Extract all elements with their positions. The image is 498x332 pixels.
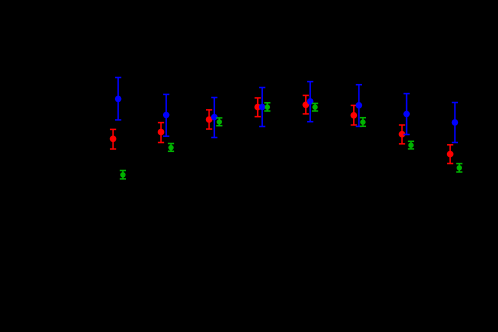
blue series point 7 error bar — [403, 94, 410, 135]
green series point 8 error bar — [456, 164, 462, 172]
red series point 8 error bar — [447, 145, 454, 164]
red series point 7 error bar — [399, 125, 406, 144]
green series point 4 error bar — [264, 103, 270, 111]
blue series point 3 error bar — [211, 98, 218, 138]
blue series point 8 error bar — [452, 103, 459, 143]
blue series point 5 error bar — [307, 82, 314, 122]
blue series point 1 error bar — [115, 78, 122, 120]
blue series point 4 error bar — [259, 88, 266, 127]
red series point 4 error bar — [254, 98, 261, 117]
green series point 7 error bar — [408, 141, 414, 149]
red series point 3 error bar — [206, 110, 213, 129]
red series point 5 error bar — [303, 95, 310, 114]
blue series point 2 error bar — [163, 94, 170, 136]
green series point 3 error bar — [216, 118, 222, 126]
green series point 2 error bar — [168, 144, 174, 152]
green series point 5 error bar — [312, 103, 318, 111]
blue series point 6 error bar — [356, 85, 363, 127]
red series point 2 error bar — [158, 123, 165, 143]
red series point 6 error bar — [351, 105, 358, 125]
green series point 1 error bar — [120, 171, 126, 179]
red series point 1 error bar — [110, 129, 117, 149]
green series point 6 error bar — [360, 118, 366, 127]
